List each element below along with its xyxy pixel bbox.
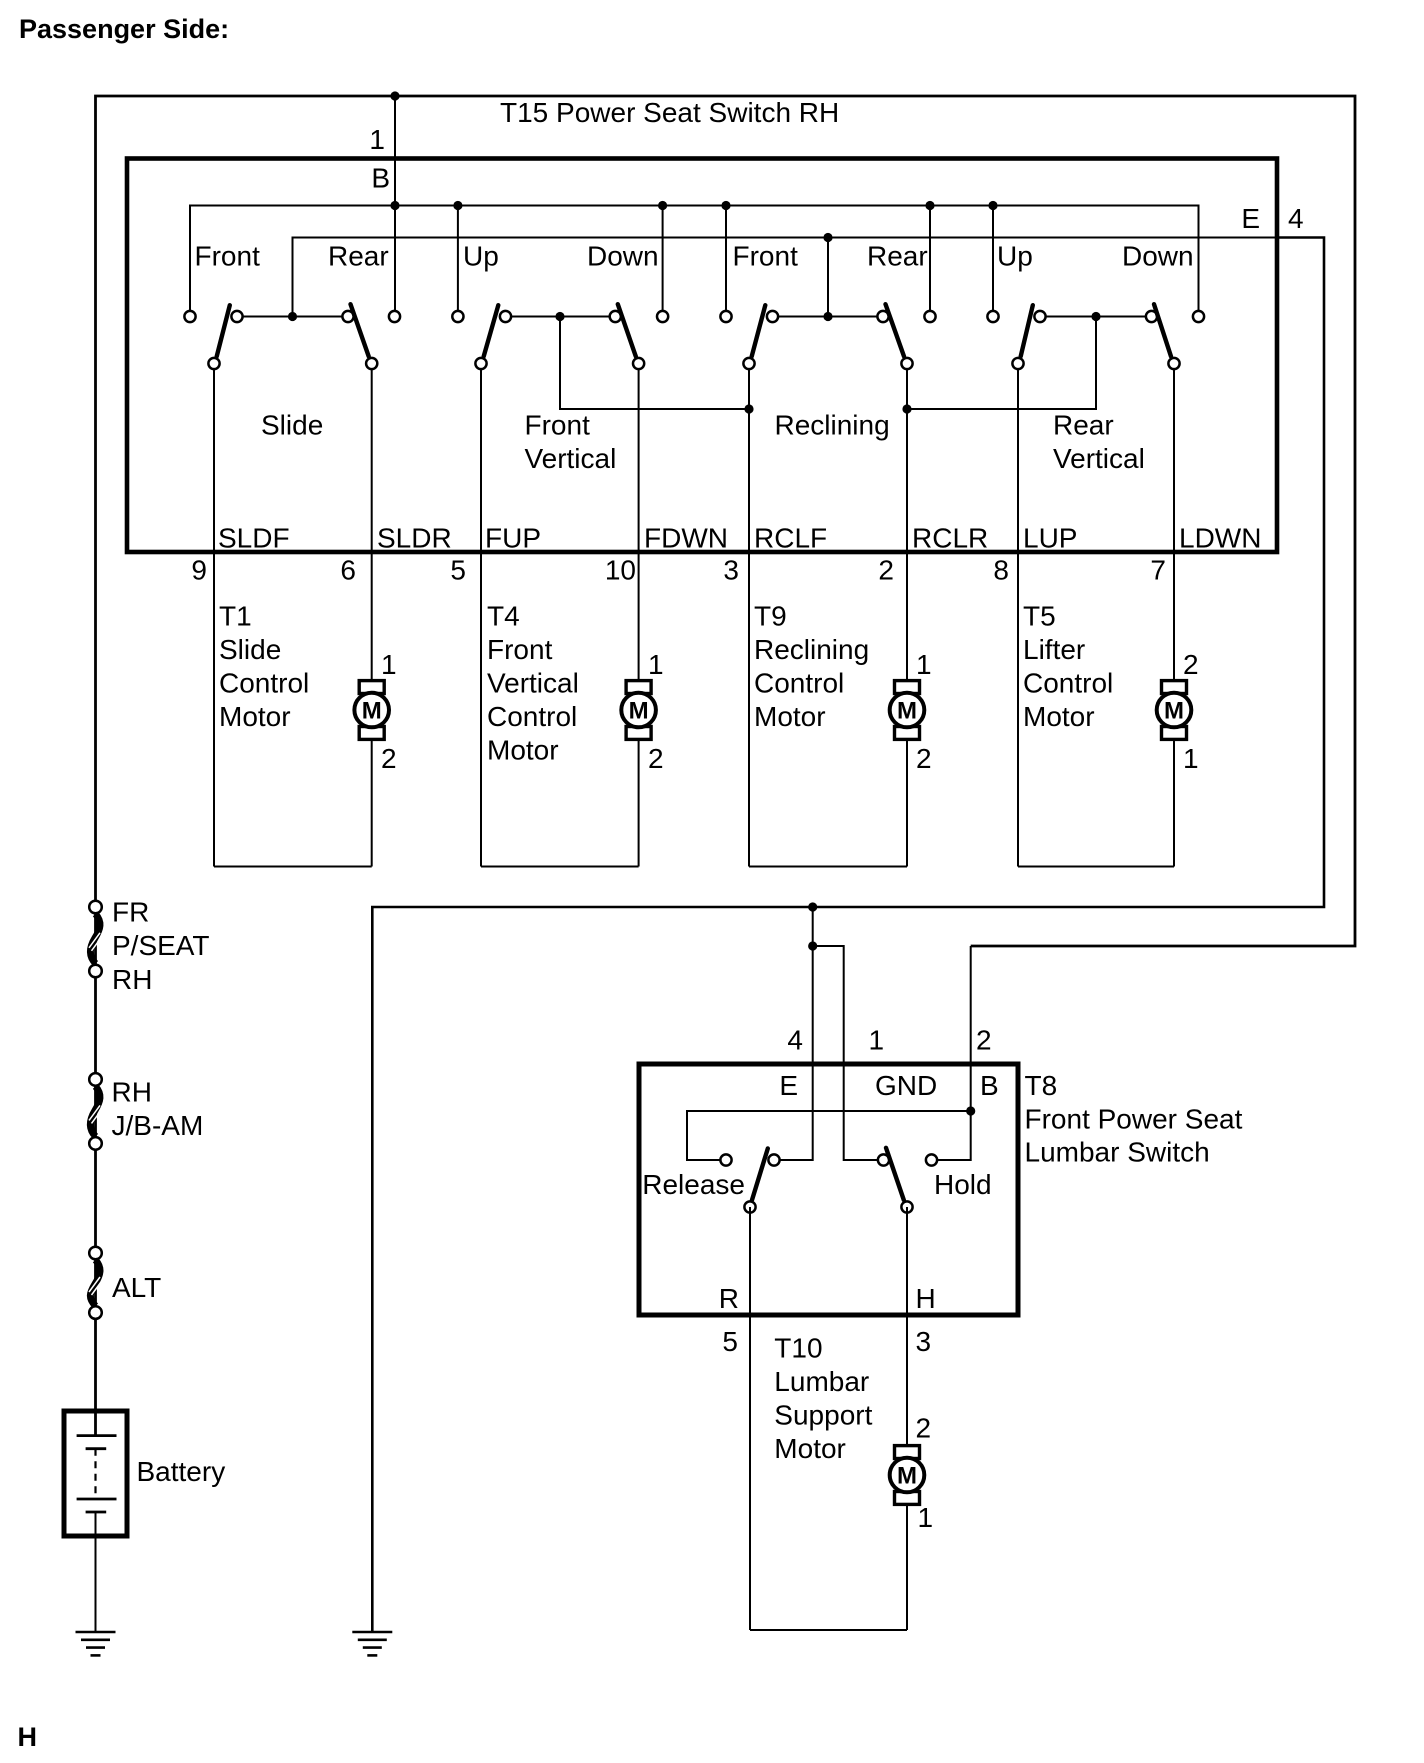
svg-text:1: 1: [648, 649, 664, 680]
motor M T10 lumbar support: [890, 1446, 925, 1505]
contact reclining front pivot: [767, 311, 778, 322]
wire SLDF output to motor box: [213, 364, 215, 867]
motor M T4 front vertical control: [621, 681, 656, 740]
contact Release pivot: [768, 1154, 779, 1165]
connector squiggle RH J/B-AM: [89, 1086, 103, 1136]
connector T15 Power Seat Switch RH box: [127, 159, 1277, 553]
contact Front contact reclining: [720, 311, 731, 322]
blade RV Down switch: [1154, 304, 1171, 356]
svg-text:T5: T5: [1023, 601, 1056, 632]
svg-text:Down: Down: [587, 241, 659, 272]
svg-text:FDWN: FDWN: [644, 523, 728, 554]
node B bus / pin-B wire: [390, 201, 399, 210]
svg-text:H: H: [18, 1722, 38, 1752]
svg-text:M: M: [897, 698, 917, 725]
wire E bus inside T15 (pin 4/E): [293, 238, 1278, 317]
wire T9 motor box bottom: [749, 866, 907, 868]
wire battery negative to ground: [95, 1512, 97, 1632]
wire B bus inside T15 (feeds all static contacts): [190, 206, 1199, 317]
contact slide rear pivot: [342, 311, 353, 322]
contact Up contact FV: [452, 311, 463, 322]
svg-text:B: B: [980, 1070, 999, 1101]
svg-text:Support: Support: [774, 1400, 872, 1431]
wire B bus drop to Up contact (rear vertical): [992, 206, 994, 317]
svg-text:Vertical: Vertical: [487, 668, 579, 699]
blade FV Up switch: [484, 305, 499, 356]
blade Hold switch: [886, 1148, 904, 1200]
contact Hold pivot: [878, 1154, 889, 1165]
wire B bus drop to Front contact (reclining): [725, 206, 727, 317]
svg-text:2: 2: [381, 743, 397, 774]
svg-text:2: 2: [976, 1025, 992, 1056]
svg-text:Hold: Hold: [934, 1169, 992, 1200]
node ground run / lumbar E branch: [808, 902, 817, 911]
wire battery B+ feed: left riser, top run, right drop to lumbar B: [96, 96, 1356, 1436]
node RCLF / front-vertical jumper: [744, 404, 753, 413]
svg-text:1: 1: [369, 124, 385, 155]
contact reclining rear pivot: [877, 311, 888, 322]
svg-text:ALT: ALT: [112, 1272, 161, 1303]
connector circle ALT bottom: [89, 1306, 102, 1319]
contact RV up pivot: [1034, 311, 1045, 322]
svg-text:Front Power Seat: Front Power Seat: [1025, 1103, 1243, 1134]
contact Rear contact slide: [389, 311, 400, 322]
svg-text:P/SEAT: P/SEAT: [112, 930, 210, 961]
svg-text:Motor: Motor: [774, 1433, 846, 1464]
svg-text:6: 6: [340, 555, 356, 586]
contact FV down pivot: [610, 311, 621, 322]
svg-text:Lumbar: Lumbar: [774, 1366, 869, 1397]
svg-text:T4: T4: [487, 601, 520, 632]
contact LUP throw: [1012, 358, 1023, 369]
node E bus / reclining common riser: [823, 233, 832, 242]
svg-text:LUP: LUP: [1023, 523, 1077, 554]
switch rear-vertical Up/Down common bar: [1040, 316, 1152, 318]
svg-text:Front: Front: [195, 241, 261, 272]
svg-text:LDWN: LDWN: [1179, 523, 1261, 554]
connector circle ALT top: [89, 1247, 102, 1260]
svg-text:1: 1: [916, 649, 932, 680]
battery plate short top: [86, 1447, 107, 1450]
svg-text:Front: Front: [487, 634, 553, 665]
svg-text:RH: RH: [112, 964, 152, 995]
svg-text:Release: Release: [642, 1169, 745, 1200]
battery plate long bottom: [77, 1498, 117, 1501]
svg-text:Motor: Motor: [487, 735, 559, 766]
node B bus to front-vertical Up contact: [453, 201, 462, 210]
svg-text:10: 10: [605, 555, 636, 586]
contact RCLF throw: [743, 358, 754, 369]
node B bus to rear-vertical Up contact: [988, 201, 997, 210]
battery plate short bottom: [86, 1511, 107, 1514]
svg-text:5: 5: [722, 1326, 738, 1357]
svg-text:T8: T8: [1025, 1070, 1058, 1101]
contact RCLR throw: [901, 358, 912, 369]
svg-text:T1: T1: [219, 601, 252, 632]
svg-text:Rear: Rear: [328, 241, 389, 272]
node top feed to T15 pin 1/B: [390, 91, 399, 100]
connector circle RH J/B-AM bottom: [89, 1137, 102, 1150]
contact Up contact RV: [987, 311, 998, 322]
blade slide Rear switch: [351, 304, 369, 356]
svg-text:Motor: Motor: [1023, 701, 1095, 732]
ground (seat circuit E): [352, 1632, 392, 1655]
contact Release feed: [720, 1154, 731, 1165]
svg-text:Slide: Slide: [261, 410, 323, 441]
svg-text:B: B: [371, 163, 390, 194]
blade FV Down switch: [618, 304, 636, 356]
wire B bus drop to Up contact (front vertical): [457, 206, 459, 317]
wire SLDR output to motor box: [371, 364, 373, 867]
svg-text:R: R: [719, 1283, 739, 1314]
contact Release throw: [744, 1201, 755, 1212]
switch reclining Front/Rear common bar: [773, 316, 884, 318]
svg-text:Control: Control: [487, 701, 577, 732]
wire T4 motor box bottom: [481, 866, 639, 868]
svg-text:RCLR: RCLR: [912, 523, 988, 554]
wire H output pin 3 to lumbar motor box: [906, 1207, 908, 1630]
svg-text:Vertical: Vertical: [1053, 443, 1145, 474]
svg-text:M: M: [362, 698, 382, 725]
contact SLDF throw: [208, 358, 219, 369]
svg-text:Slide: Slide: [219, 634, 281, 665]
node B bus to reclining Front contact: [721, 201, 730, 210]
svg-text:2: 2: [916, 743, 932, 774]
contact FDWN throw: [633, 358, 644, 369]
svg-text:E: E: [1241, 203, 1260, 234]
wire lumbar B pin 2 drop: [932, 946, 971, 1160]
wire lumbar B cross-feed to Release contact: [687, 1111, 971, 1160]
battery dashed center link: [94, 1449, 96, 1499]
wire B bus drop to Down contact (front vertical): [662, 206, 664, 317]
wire rear-vertical common jumper to RCLR line: [907, 317, 1096, 410]
svg-text:FR: FR: [112, 897, 149, 928]
svg-text:SLDF: SLDF: [218, 523, 290, 554]
wire T10 motor box bottom: [750, 1629, 907, 1631]
wire lumbar E pin 4 drop: [774, 907, 813, 1160]
svg-text:H: H: [916, 1283, 936, 1314]
svg-text:FUP: FUP: [485, 523, 541, 554]
svg-text:M: M: [629, 698, 649, 725]
contact FUP throw: [475, 358, 486, 369]
motor M T5 lifter control: [1157, 681, 1192, 740]
wire FDWN output to motor box: [638, 364, 640, 867]
svg-text:2: 2: [648, 743, 664, 774]
wire front-vertical common jumper to RCLF line: [560, 317, 749, 410]
wire LUP output to motor box: [1017, 364, 1019, 867]
svg-text:Control: Control: [1023, 668, 1113, 699]
svg-text:Battery: Battery: [137, 1456, 226, 1487]
contact RV down pivot: [1146, 311, 1157, 322]
wire R output pin 5 to lumbar motor box: [749, 1207, 751, 1630]
blade RV Up switch: [1021, 305, 1033, 356]
motor M T1 slide control: [354, 681, 389, 740]
svg-text:M: M: [897, 1463, 917, 1490]
switch slide Front/Rear common bar: [237, 316, 348, 318]
wire reclining common riser to E bus: [827, 238, 829, 317]
svg-text:4: 4: [1288, 203, 1304, 234]
svg-text:2: 2: [1183, 649, 1199, 680]
svg-text:1: 1: [381, 649, 397, 680]
node B bus to reclining Rear contact: [925, 201, 934, 210]
contact FV up pivot: [500, 311, 511, 322]
contact SLDR throw: [366, 358, 377, 369]
node lumbar B branch: [966, 1106, 975, 1115]
contact Hold throw: [901, 1201, 912, 1212]
svg-text:7: 7: [1150, 555, 1166, 586]
svg-text:Lumbar Switch: Lumbar Switch: [1025, 1137, 1210, 1168]
svg-text:J/B-AM: J/B-AM: [112, 1110, 204, 1141]
svg-text:Front: Front: [733, 241, 799, 272]
wire LDWN output to motor box: [1173, 364, 1175, 867]
connector squiggle ALT: [89, 1260, 103, 1306]
svg-text:M: M: [1164, 698, 1184, 725]
svg-text:Reclining: Reclining: [775, 410, 890, 441]
contact slide front pivot: [231, 311, 242, 322]
node RCLR / rear-vertical jumper: [902, 404, 911, 413]
svg-text:RCLF: RCLF: [754, 523, 827, 554]
wire E/ground loop: exits pin 4, right side drop, bottom run, ground drop: [372, 238, 1324, 1633]
svg-text:5: 5: [450, 555, 466, 586]
svg-text:3: 3: [723, 555, 739, 586]
contact Down contact FV: [657, 311, 668, 322]
svg-text:8: 8: [993, 555, 1009, 586]
ground (battery): [76, 1632, 116, 1655]
battery box: [64, 1411, 127, 1536]
svg-text:Motor: Motor: [754, 701, 826, 732]
node front-vertical common: [555, 312, 564, 321]
blade reclining Front switch: [752, 305, 766, 356]
svg-text:Rear: Rear: [1053, 410, 1114, 441]
blade reclining Rear switch: [886, 304, 905, 356]
svg-text:T15 Power Seat Switch RH: T15 Power Seat Switch RH: [500, 97, 839, 128]
contact Rear contact reclining: [924, 311, 935, 322]
contact Front contact slide: [184, 311, 195, 322]
blade Release switch: [752, 1149, 768, 1201]
svg-text:Motor: Motor: [219, 701, 291, 732]
node lumbar E/GND tie: [808, 941, 817, 950]
contact Hold feed: [926, 1154, 937, 1165]
svg-text:4: 4: [787, 1025, 803, 1056]
wire lumbar GND pin 1 drop: [813, 946, 884, 1160]
motor M T9 reclining control: [890, 681, 925, 740]
connector circle FR P/SEAT RH top: [89, 901, 102, 914]
svg-text:Passenger Side:: Passenger Side:: [19, 14, 229, 44]
connector squiggle FR P/SEAT RH: [89, 914, 103, 964]
connector circle FR P/SEAT RH bottom: [89, 965, 102, 978]
node B bus to front-vertical Down contact: [658, 201, 667, 210]
svg-text:T10: T10: [774, 1333, 822, 1364]
wire T15 pin 1 (B) drop to Rear contact: [394, 96, 396, 317]
svg-text:2: 2: [878, 555, 894, 586]
svg-text:Control: Control: [754, 668, 844, 699]
switch front-vertical Up/Down common bar: [506, 316, 616, 318]
node slide common to E bus: [288, 312, 297, 321]
svg-text:Down: Down: [1122, 241, 1194, 272]
svg-text:Reclining: Reclining: [754, 634, 869, 665]
wire T1 motor box bottom: [214, 866, 372, 868]
node rear-vertical common: [1091, 312, 1100, 321]
svg-text:1: 1: [869, 1025, 885, 1056]
svg-text:SLDR: SLDR: [377, 523, 452, 554]
svg-text:Vertical: Vertical: [525, 443, 617, 474]
connector circle RH J/B-AM top: [89, 1073, 102, 1086]
contact Down contact RV: [1193, 311, 1204, 322]
svg-text:3: 3: [916, 1326, 932, 1357]
svg-text:1: 1: [918, 1502, 934, 1533]
svg-text:Lifter: Lifter: [1023, 634, 1085, 665]
contact LDWN throw: [1168, 358, 1179, 369]
svg-text:1: 1: [1183, 743, 1199, 774]
svg-text:Up: Up: [463, 241, 499, 272]
blade slide Front switch: [217, 305, 230, 356]
svg-text:Rear: Rear: [867, 241, 928, 272]
svg-text:Up: Up: [997, 241, 1033, 272]
svg-text:Front: Front: [525, 410, 591, 441]
node reclining common: [823, 312, 832, 321]
svg-text:T9: T9: [754, 601, 787, 632]
connector T8 Front Power Seat Lumbar Switch box: [639, 1064, 1018, 1315]
svg-text:2: 2: [916, 1413, 932, 1444]
wire RCLR output to motor box: [906, 364, 908, 867]
svg-text:9: 9: [191, 555, 207, 586]
wire T5 motor box bottom: [1018, 866, 1174, 868]
wire RCLF output to motor box: [748, 364, 750, 867]
wire FUP output to motor box: [480, 364, 482, 867]
svg-text:E: E: [779, 1070, 798, 1101]
svg-text:GND: GND: [875, 1070, 937, 1101]
svg-text:RH: RH: [112, 1077, 152, 1108]
svg-text:Control: Control: [219, 668, 309, 699]
battery plate long top: [77, 1434, 117, 1437]
wire B bus drop to Rear contact (reclining): [929, 206, 931, 317]
